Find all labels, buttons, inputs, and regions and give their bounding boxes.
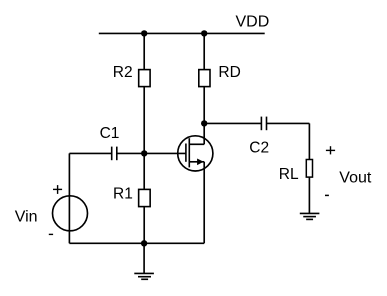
- svg-text:Vin: Vin: [15, 209, 38, 226]
- svg-text:C2: C2: [249, 140, 269, 157]
- svg-text:RL: RL: [279, 166, 299, 183]
- svg-text:R1: R1: [113, 185, 133, 202]
- svg-text:R2: R2: [113, 64, 133, 81]
- svg-text:VDD: VDD: [236, 13, 270, 30]
- svg-text:Vout: Vout: [339, 169, 372, 186]
- svg-text:C1: C1: [100, 125, 120, 142]
- svg-text:RD: RD: [218, 64, 240, 81]
